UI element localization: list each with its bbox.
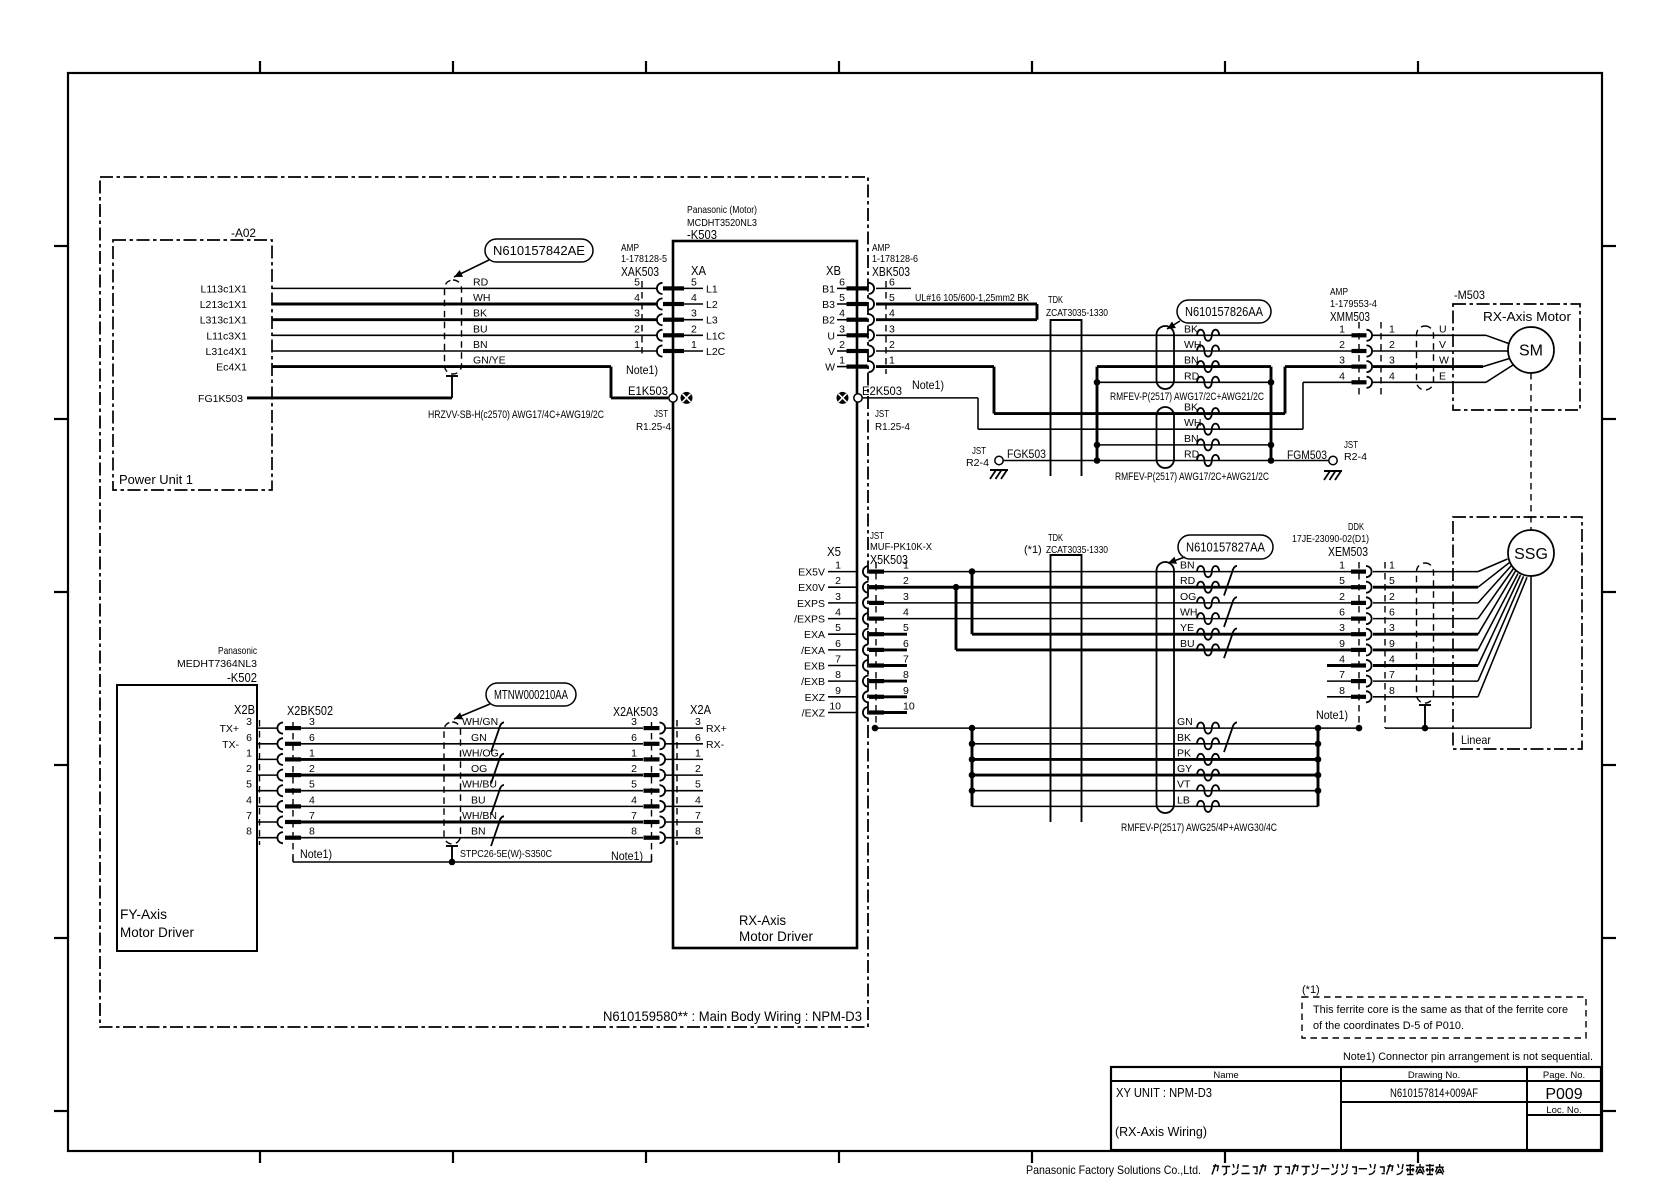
svg-text:1: 1 (1339, 560, 1345, 572)
svg-text:1: 1 (1389, 560, 1395, 572)
svg-text:L2: L2 (706, 299, 718, 311)
svg-text:3: 3 (903, 591, 909, 603)
svg-text:3: 3 (1389, 622, 1395, 634)
svg-text:3: 3 (889, 323, 895, 335)
svg-text:JST: JST (972, 445, 986, 457)
svg-text:/EXZ: /EXZ (802, 708, 826, 720)
svg-text:Page. No.: Page. No. (1543, 1070, 1585, 1081)
svg-text:EXZ: EXZ (805, 692, 826, 704)
svg-text:4: 4 (1389, 370, 1395, 382)
svg-text:3: 3 (695, 716, 701, 728)
svg-text:SSG: SSG (1514, 546, 1548, 563)
svg-text:2: 2 (691, 323, 697, 335)
svg-text:7: 7 (835, 654, 841, 666)
svg-text:TDK: TDK (1048, 294, 1063, 306)
wire XEM pin 4 to SSG (1373, 664, 1478, 667)
svg-text:OG: OG (1180, 591, 1196, 603)
wire X2 WH/GN (301, 727, 643, 729)
svg-text:N610157814+009AF: N610157814+009AF (1390, 1086, 1478, 1100)
connector XEM503 pin 6 (1351, 617, 1366, 621)
svg-text:EXB: EXB (804, 661, 825, 673)
svg-text:2: 2 (246, 763, 252, 775)
connector X2AK503 pin 8 (644, 836, 660, 840)
ground bus right (FGM503 riser) (1270, 367, 1273, 461)
balloon N610157827AA (1178, 535, 1273, 559)
X5 right stubs EXA-/EXZ (884, 633, 907, 636)
connector XEM503 pin 3 (1351, 632, 1366, 636)
svg-text:5: 5 (903, 622, 909, 634)
svg-text:6: 6 (246, 732, 252, 744)
wire Ec4X1 (GN/YE) (272, 365, 611, 368)
connector XA pin 4 (L2) (657, 298, 663, 309)
wire FGM503 (1271, 460, 1329, 462)
svg-text:4: 4 (1339, 654, 1345, 666)
svg-text:XMM503: XMM503 (1330, 309, 1370, 324)
svg-text:5: 5 (691, 276, 697, 288)
svg-text:BK: BK (473, 308, 487, 320)
connector XA pin 3 (L3) (657, 314, 663, 325)
shield wire to SSG (1385, 727, 1531, 729)
connector X2AK503 pin 3 (644, 726, 660, 730)
svg-text:BK: BK (1184, 402, 1198, 414)
connector X2B pin 2 (257, 774, 277, 776)
svg-text:Ec4X1: Ec4X1 (216, 362, 247, 374)
svg-text:2: 2 (634, 323, 640, 335)
svg-text:BK: BK (1177, 732, 1191, 744)
wire W to motor (1373, 365, 1483, 368)
X2BK502 connector dashed drop (292, 722, 294, 856)
wire XEM pin 2 to SSG (1373, 602, 1478, 604)
wire RD lower ground tie (1097, 460, 1271, 462)
svg-text:1: 1 (1389, 323, 1395, 335)
wire L213c1X1 (WH) (272, 303, 657, 306)
svg-text:Name: Name (1213, 1070, 1238, 1081)
connector X2B pin 3 (257, 727, 277, 729)
RX-axis motor box -M503 (dash-dot) (1453, 304, 1580, 410)
svg-text:of the coordinates D-5 of P010: of the coordinates D-5 of P010. (1313, 1020, 1464, 1032)
cable N610157842AE shield drain tap (446, 375, 458, 377)
svg-text:GN/YE: GN/YE (473, 355, 506, 367)
svg-text:LB: LB (1177, 794, 1190, 806)
encoder cable dashed pill (SSG side) (1417, 563, 1434, 703)
wire X2 WH/OG (301, 758, 643, 761)
svg-text:R1.25-4: R1.25-4 (875, 421, 910, 433)
ferrite beads on motor wires (1197, 330, 1219, 341)
X2 cable shield drain (446, 845, 458, 847)
svg-text:U: U (827, 330, 835, 342)
svg-text:3: 3 (1389, 355, 1395, 367)
svg-text:GN: GN (1177, 716, 1193, 728)
X5K503 shield link to GN bus (875, 727, 972, 729)
terminal E1K503 (669, 394, 677, 402)
TDK ZCAT3035-1330 ferrite core 1 (1051, 320, 1082, 476)
svg-text:DDK: DDK (1348, 521, 1364, 533)
connector XMM503 pin 2 (1352, 349, 1367, 353)
svg-text:B2: B2 (822, 315, 835, 327)
cable N610157827AA bundle pill (1157, 562, 1175, 813)
svg-text:FG1K503: FG1K503 (198, 393, 243, 405)
connector XMM503 mate dashed line (1380, 322, 1382, 395)
svg-text:3: 3 (691, 308, 697, 320)
linear scale box (dash-dot) (1453, 517, 1582, 749)
svg-text:Loc. No.: Loc. No. (1546, 1105, 1581, 1116)
junction dots on left ground bus (1094, 379, 1101, 386)
wire X2 GN (301, 743, 643, 745)
svg-text:4: 4 (889, 308, 895, 320)
wire BN upper ground tie (1097, 365, 1271, 368)
svg-text:8: 8 (309, 826, 315, 838)
wire V phase (WH) XB pin2 to XMM pin2 (876, 350, 1352, 352)
motor cable dashed pill (1417, 326, 1434, 390)
connector XB pin 6 (B1) (837, 287, 847, 289)
svg-text:/EXA: /EXA (801, 645, 825, 657)
junction dots left shield bus (969, 725, 976, 732)
svg-text:W: W (1439, 355, 1449, 367)
svg-text:2: 2 (1389, 339, 1395, 351)
wire shield BK (972, 743, 1318, 745)
svg-text:4: 4 (1389, 654, 1395, 666)
wire E to motor (1373, 381, 1486, 383)
svg-text:W: W (825, 362, 835, 374)
svg-text:E: E (1439, 370, 1446, 382)
svg-text:BU: BU (471, 794, 486, 806)
connector XB pin 5 (B3) (837, 303, 847, 305)
svg-text:RMFEV-P(2517) AWG17/2C+AWG21/2: RMFEV-P(2517) AWG17/2C+AWG21/2C (1110, 391, 1264, 403)
svg-text:2: 2 (889, 339, 895, 351)
wire shield LB (972, 805, 1318, 807)
connector XEM503 pin 9 (1351, 648, 1366, 652)
svg-text:Power Unit 1: Power Unit 1 (119, 472, 193, 487)
cable N610157842AE bundle (dashed pill) (445, 280, 462, 374)
svg-text:GN: GN (471, 732, 487, 744)
svg-text:X2A: X2A (690, 702, 711, 717)
connector XB pin 4 (B2) (837, 319, 847, 321)
svg-text:N610157842AE: N610157842AE (493, 244, 585, 258)
branch riser to YE wire (971, 572, 974, 635)
junction EX5V branch (969, 568, 976, 575)
svg-text:OG: OG (471, 763, 487, 775)
connector X2AK503 pin 6 (644, 742, 660, 746)
border zone tick marks (259, 61, 261, 73)
svg-text:Panasonic Factory Solutions Co: Panasonic Factory Solutions Co.,Ltd. (1026, 1163, 1201, 1177)
svg-text:4: 4 (835, 607, 841, 619)
svg-text:ZCAT3035-1330: ZCAT3035-1330 (1046, 307, 1108, 319)
wire shield VT (972, 790, 1318, 792)
wire XB pin6 stub (876, 287, 911, 289)
connector XEM503 pin 1 (1351, 570, 1366, 574)
svg-text:JST: JST (875, 408, 889, 420)
wire XEM pin 9 to SSG (1373, 648, 1478, 651)
svg-text:1: 1 (839, 355, 845, 367)
svg-text:MEDHT7364NL3: MEDHT7364NL3 (177, 658, 257, 670)
wire jumper XB pin5-pin4 UL#16 (876, 303, 1037, 306)
svg-text:1: 1 (1339, 323, 1345, 335)
terminal FGM503 (1329, 456, 1337, 464)
svg-text:RD: RD (1180, 575, 1196, 587)
encoder symbol SSG (1508, 530, 1554, 576)
svg-text:EX5V: EX5V (798, 567, 825, 579)
wire E2K503 to XMM detour (862, 397, 978, 399)
svg-text:YE: YE (1180, 622, 1194, 634)
X2 cable dashed pill (444, 722, 461, 844)
terminal FGK503 (995, 456, 1003, 464)
connector X2A dashed line (676, 720, 678, 845)
wire EX5V to XEM pin1 (BN) (884, 571, 1352, 573)
svg-text:STPC26-5E(W)-S350C: STPC26-5E(W)-S350C (460, 848, 552, 860)
balloon N610157826AA (1177, 300, 1271, 323)
svg-text:This ferrite core is the same: This ferrite core is the same as that of… (1313, 1004, 1568, 1016)
svg-text:RMFEV-P(2517) AWG17/2C+AWG21/2: RMFEV-P(2517) AWG17/2C+AWG21/2C (1115, 471, 1269, 483)
twisted pair marks X2 cable (491, 722, 504, 752)
connector XEM503 pin 5 (1351, 585, 1366, 589)
svg-text:2: 2 (631, 763, 637, 775)
svg-text:(RX-Axis Wiring): (RX-Axis Wiring) (1115, 1124, 1207, 1139)
svg-text:E1K503: E1K503 (628, 384, 668, 398)
wire X2 BU (301, 805, 643, 807)
svg-text:3: 3 (835, 591, 841, 603)
connector X2B pin 6 (257, 743, 277, 745)
svg-text:6: 6 (1389, 607, 1395, 619)
branch riser to BU wire (955, 587, 958, 650)
svg-text:2: 2 (1339, 591, 1345, 603)
svg-text:5: 5 (889, 292, 895, 304)
wire FGK503 (1003, 460, 1097, 462)
svg-text:8: 8 (631, 826, 637, 838)
svg-text:/EXPS: /EXPS (794, 614, 825, 626)
connector XB pin 1 (W) (837, 366, 847, 368)
svg-text:5: 5 (309, 779, 315, 791)
wire XEM pin 1 to SSG (1373, 571, 1478, 573)
XEM pins 4,7,8 left stubs (1327, 664, 1351, 667)
svg-text:7: 7 (903, 654, 909, 666)
wire X2 WH/BU (301, 790, 643, 792)
svg-text:6: 6 (839, 276, 845, 288)
title block (1111, 1067, 1601, 1150)
svg-text:(*1): (*1) (1302, 984, 1320, 996)
svg-text:BK: BK (1184, 323, 1198, 335)
connector XEM503 pin 8 (1351, 695, 1366, 699)
footer company name japanese (1212, 1164, 1218, 1175)
junction EX0V branch (953, 584, 960, 591)
svg-text:2: 2 (695, 763, 701, 775)
svg-text:BU: BU (473, 323, 488, 335)
svg-text:5: 5 (839, 292, 845, 304)
wire RD upper ground tie (1097, 381, 1271, 383)
svg-text:EXA: EXA (804, 629, 825, 641)
balloon 827AA pointer (1168, 557, 1185, 563)
svg-text:Note1): Note1) (912, 378, 944, 392)
svg-text:/EXB: /EXB (801, 676, 825, 688)
wire X2 WH/BN (301, 821, 643, 824)
wire XEM pin 3 to SSG (1373, 633, 1478, 636)
svg-text:L31c4X1: L31c4X1 (206, 346, 248, 358)
svg-text:-A02: -A02 (231, 226, 256, 240)
twisted pair marks encoder cable (1224, 566, 1237, 596)
svg-text:MTNW000210AA: MTNW000210AA (494, 688, 568, 702)
svg-text:RX+: RX+ (706, 723, 727, 735)
svg-text:SM: SM (1519, 343, 1543, 360)
svg-text:10: 10 (829, 701, 841, 713)
FY-axis motor driver box -K502 (117, 685, 257, 951)
svg-text:XEM503: XEM503 (1328, 544, 1368, 559)
svg-text:3: 3 (309, 716, 315, 728)
svg-text:-M503: -M503 (1454, 288, 1485, 302)
svg-text:ZCAT3035-1330: ZCAT3035-1330 (1046, 544, 1108, 556)
svg-text:4: 4 (309, 794, 315, 806)
svg-text:Panasonic (Motor): Panasonic (Motor) (687, 204, 757, 216)
svg-text:2: 2 (835, 575, 841, 587)
ground bus left (FGK503 riser) (1096, 367, 1099, 461)
svg-text:2: 2 (309, 763, 315, 775)
svg-text:6: 6 (835, 638, 841, 650)
svg-text:Panasonic: Panasonic (218, 645, 257, 657)
junction dots on right ground bus (1268, 379, 1275, 386)
wire shield GN (972, 727, 1318, 729)
svg-text:Note1): Note1) (1316, 708, 1348, 722)
svg-text:N610157827AA: N610157827AA (1186, 540, 1266, 554)
svg-text:UL#16 105/600-1,25mm2 BK: UL#16 105/600-1,25mm2 BK (915, 292, 1029, 304)
connector X2AK503 pin 2 (644, 773, 660, 777)
svg-text:1: 1 (835, 560, 841, 572)
svg-text:8: 8 (1339, 685, 1345, 697)
ferrite core note box (dashed) (1302, 997, 1586, 1038)
protective earth symbol at E1K503 (681, 392, 692, 403)
svg-text:E2K503: E2K503 (862, 384, 902, 398)
right shield bus (1317, 728, 1320, 806)
svg-text:6: 6 (903, 638, 909, 650)
svg-text:BU: BU (1180, 638, 1195, 650)
connector XEM503 pin 7 (1351, 679, 1366, 683)
wire X2 OG (301, 774, 643, 777)
connector XEM503 dashed line (through pins) (1358, 562, 1360, 728)
wire X2 BN (301, 837, 643, 839)
svg-text:2: 2 (1339, 339, 1345, 351)
balloon N610157842AE (485, 239, 593, 262)
svg-text:Note1) Connector pin arrangeme: Note1) Connector pin arrangement is not … (1343, 1051, 1593, 1063)
svg-text:N610159580** : Main Body Wirin: N610159580** : Main Body Wiring : NPM-D3 (603, 1008, 862, 1024)
svg-text:1: 1 (695, 747, 701, 759)
svg-text:3: 3 (631, 716, 637, 728)
TDK ZCAT3035-1330 ferrite core 2 (1051, 555, 1082, 822)
wire shield PK (972, 758, 1318, 761)
svg-text:2: 2 (839, 339, 845, 351)
svg-text:L213c1X1: L213c1X1 (200, 299, 247, 311)
wire L31c4X1 (BN) (272, 350, 657, 352)
svg-text:1: 1 (631, 747, 637, 759)
svg-text:6: 6 (1339, 607, 1345, 619)
svg-text:3: 3 (634, 308, 640, 320)
svg-text:6: 6 (309, 732, 315, 744)
svg-text:R1.25-4: R1.25-4 (636, 421, 671, 433)
svg-text:WH: WH (473, 292, 491, 304)
svg-text:1: 1 (309, 747, 315, 759)
wire EXPS to XEM pin2 (OG) (884, 602, 1352, 604)
svg-text:7: 7 (1389, 669, 1395, 681)
balloon pointer arrow (454, 260, 489, 277)
protective earth symbol at E2K503 (837, 392, 848, 403)
svg-text:V: V (828, 346, 835, 358)
wire E (WH lower) through ferrite (978, 428, 1303, 430)
connector XBK503 (cable side) dashed line (885, 281, 887, 374)
svg-text:9: 9 (1339, 638, 1345, 650)
connector XMM503 pin 1 (1352, 333, 1367, 337)
wire /EXPS to XEM pin6 (WH) (884, 618, 1352, 620)
wire shield GY (972, 774, 1318, 777)
svg-text:X5: X5 (827, 544, 841, 559)
wire E rise to XMM pin4 (1302, 382, 1304, 429)
svg-text:TDK: TDK (1048, 532, 1063, 544)
connector X2AK503 pin 5 (644, 789, 660, 793)
wire W phase XB pin1 detour down (876, 365, 994, 368)
svg-text:5: 5 (1389, 575, 1395, 587)
ground symbol FGK503 (990, 469, 1008, 471)
wire BU to XEM pin9 (956, 648, 1352, 651)
connector XEM503 pin 2 (1351, 601, 1366, 605)
svg-text:4: 4 (903, 607, 909, 619)
wire L113c1X1 (RD) (272, 287, 657, 289)
connector X2AK503 pin 4 (644, 804, 660, 808)
svg-text:TX-: TX- (222, 739, 239, 751)
svg-text:XAK503: XAK503 (621, 264, 659, 279)
connector XEM503 mate dashed line (1384, 562, 1386, 728)
svg-text:WH/OG: WH/OG (462, 747, 499, 759)
svg-text:FY-Axis: FY-Axis (120, 906, 167, 922)
connector X2AK503 pin 1 (644, 757, 660, 761)
svg-text:6: 6 (631, 732, 637, 744)
svg-text:4: 4 (839, 308, 845, 320)
svg-text:P009: P009 (1545, 1086, 1582, 1103)
motor symbol SM (1508, 327, 1554, 373)
svg-text:XY UNIT : NPM-D3: XY UNIT : NPM-D3 (1116, 1085, 1212, 1100)
connector X2B pin 5 (257, 790, 277, 792)
svg-text:10: 10 (903, 701, 915, 713)
svg-text:2: 2 (903, 575, 909, 587)
svg-text:L113c1X1: L113c1X1 (200, 283, 247, 295)
svg-text:8: 8 (246, 826, 252, 838)
balloon MTNW pointer (454, 704, 490, 719)
svg-text:X2B: X2B (234, 702, 255, 717)
main body wiring boundary (dash-dot) (100, 177, 868, 1027)
svg-text:RX-Axis Motor: RX-Axis Motor (1483, 309, 1572, 324)
svg-text:5: 5 (634, 276, 640, 288)
wire FG1K503 to cable shield (247, 396, 452, 399)
svg-text:7: 7 (1339, 669, 1345, 681)
power unit 1 box -A02 (113, 240, 272, 490)
connector X5K503 dashed line (875, 562, 877, 728)
svg-text:JST: JST (1344, 439, 1358, 451)
svg-text:BN: BN (1180, 560, 1195, 572)
svg-text:3: 3 (246, 716, 252, 728)
svg-text:L1C: L1C (706, 330, 726, 342)
svg-text:RMFEV-P(2517) AWG25/4P+AWG30/4: RMFEV-P(2517) AWG25/4P+AWG30/4C (1121, 822, 1277, 834)
svg-text:Linear: Linear (1461, 733, 1491, 747)
wire V to motor (1373, 350, 1508, 352)
wire BN lower ground tie (1097, 444, 1271, 446)
svg-text:6: 6 (695, 732, 701, 744)
svg-text:EXPS: EXPS (797, 598, 825, 610)
svg-text:9: 9 (835, 685, 841, 697)
cable N610157826AA bundle pill 1 (1157, 326, 1175, 389)
balloon 826AA pointer (1167, 321, 1180, 329)
svg-text:1: 1 (246, 747, 252, 759)
svg-text:7: 7 (309, 810, 315, 822)
svg-text:R2-4: R2-4 (1344, 451, 1367, 463)
wire YE to XEM pin3 (972, 633, 1352, 636)
svg-text:L2C: L2C (706, 346, 726, 358)
svg-text:PK: PK (1177, 747, 1191, 759)
svg-text:5: 5 (1339, 575, 1345, 587)
cable bundle pill 2 (E wires) (1157, 407, 1175, 468)
